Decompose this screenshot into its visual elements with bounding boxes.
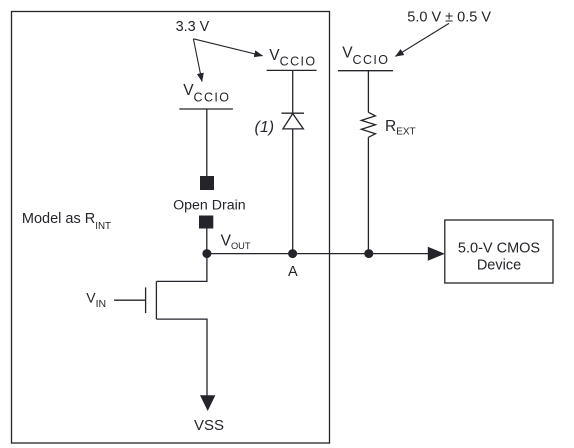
svg-text:VIN: VIN [86,290,106,311]
svg-text:REXT: REXT [385,118,416,137]
svg-text:Device: Device [477,258,521,274]
svg-text:VCCIO: VCCIO [342,45,389,68]
svg-text:Open Drain: Open Drain [173,198,246,214]
svg-text:VSS: VSS [194,417,224,434]
svg-text:A: A [288,264,298,280]
svg-text:VCCIO: VCCIO [183,82,230,104]
svg-text:VOUT: VOUT [221,233,251,251]
svg-text:Model as RINT: Model as RINT [22,211,111,232]
svg-text:5.0-V CMOS: 5.0-V CMOS [458,240,540,256]
svg-text:3.3 V: 3.3 V [176,19,210,35]
svg-text:5.0 V ± 0.5 V: 5.0 V ± 0.5 V [407,9,491,25]
svg-text:VCCIO: VCCIO [269,47,316,69]
svg-text:(1): (1) [255,119,275,136]
